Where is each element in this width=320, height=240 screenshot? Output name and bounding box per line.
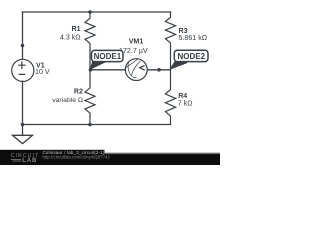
svg-text:NODE2: NODE2 <box>178 52 206 61</box>
svg-text:variable Ω: variable Ω <box>52 97 83 104</box>
logo CIRCUIT LAB <box>11 153 40 164</box>
svg-text:NODE1: NODE1 <box>94 52 122 61</box>
svg-text:R1: R1 <box>72 25 81 33</box>
junction dot R2 bottom <box>88 123 92 127</box>
wire left rail lower <box>22 81 24 124</box>
svg-text:7 kΩ: 7 kΩ <box>178 99 193 107</box>
node flag NODE1 <box>90 50 123 69</box>
wire bottom rail <box>23 124 171 126</box>
junction dot R1 top <box>88 10 92 14</box>
wire voltmeter left <box>91 69 126 71</box>
svg-text:LAB: LAB <box>22 158 37 164</box>
resistor R2 <box>85 70 95 125</box>
svg-text:5.861 kΩ: 5.861 kΩ <box>179 34 208 42</box>
resistor R4 <box>165 70 175 125</box>
junction dot voltmeter left <box>89 68 93 72</box>
ground <box>13 125 33 144</box>
junction dot ground <box>21 123 25 127</box>
wire left rail upper <box>22 12 24 59</box>
node flag NODE2 <box>170 50 208 69</box>
wire voltmeter right <box>147 69 170 71</box>
svg-text:http://circuitlab.com/c6ny4828: http://circuitlab.com/c6ny48287742 <box>43 155 111 160</box>
svg-text:R2: R2 <box>74 87 83 95</box>
voltage source V1 <box>12 59 34 81</box>
svg-text:4.3 kΩ: 4.3 kΩ <box>60 34 81 42</box>
svg-text:10 V: 10 V <box>35 68 50 76</box>
voltmeter VM1 <box>125 59 148 81</box>
wire top rail <box>23 11 171 13</box>
resistor R3 <box>165 12 175 70</box>
resistor R1 <box>85 12 95 70</box>
svg-text:VM1: VM1 <box>129 38 144 46</box>
junction dot left rail <box>21 44 25 48</box>
junction dot voltmeter right <box>157 68 161 72</box>
